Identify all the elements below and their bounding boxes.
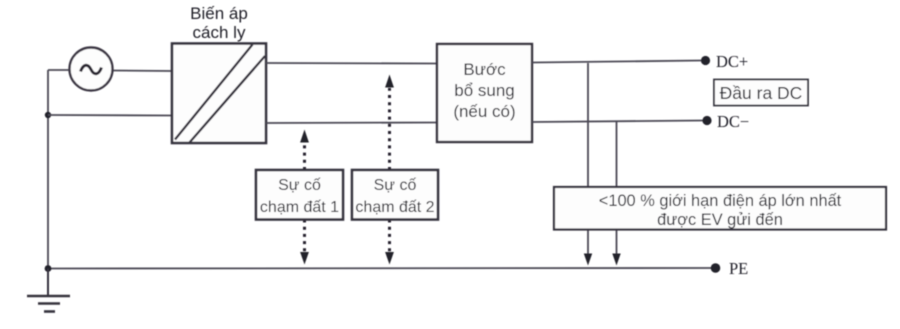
- svg-text:(nếu có): (nếu có): [453, 102, 515, 121]
- node DC- terminal dot: [702, 116, 711, 125]
- svg-text:DC+: DC+: [716, 52, 748, 71]
- wire transformer to additional-step box (bottom): [266, 122, 437, 125]
- ground fault 2 box: [352, 170, 438, 220]
- wire PE bus: [48, 267, 711, 270]
- arrowhead down at PE (tap 2): [612, 254, 620, 266]
- ground fault 2 dotted arrow (lower segment toward PE): [388, 220, 391, 253]
- ground symbol bar 2: [38, 302, 60, 305]
- svg-text:Sự cố: Sự cố: [374, 177, 417, 194]
- wire left vertical bus: [47, 70, 49, 269]
- wire DC+ output: [532, 61, 701, 63]
- additional step box U1: [437, 44, 532, 142]
- svg-text:cách ly: cách ly: [193, 23, 246, 42]
- ground symbol bar 1: [27, 295, 70, 298]
- DC output label box: [714, 80, 808, 106]
- svg-text:Sự cố: Sự cố: [278, 177, 321, 194]
- ground symbol bar 3: [44, 310, 55, 313]
- svg-text:chạm đất 1: chạm đất 1: [260, 199, 339, 216]
- svg-text:<100 % giới hạn điện áp lớn nh: <100 % giới hạn điện áp lớn nhất: [599, 192, 842, 210]
- AC sine symbol: [81, 65, 102, 74]
- transformer diagonal stripe line 1: [175, 45, 253, 140]
- ground fault 1 box: [256, 170, 343, 220]
- svg-text:chạm đất 2: chạm đất 2: [355, 199, 434, 216]
- ground fault 1 dotted arrow (lower segment toward PE): [303, 220, 306, 253]
- wire bottom from bus to transformer: [48, 114, 172, 117]
- svg-text:được EV gửi đến: được EV gửi đến: [657, 211, 783, 229]
- arrowhead down at PE (fault 2): [385, 252, 394, 265]
- ground symbol stem: [47, 269, 49, 296]
- arrowhead up (fault 1): [300, 130, 309, 143]
- ground fault 2 dotted arrow (upper segment toward DC+ wire): [388, 88, 391, 170]
- svg-text:Đầu ra DC: Đầu ra DC: [720, 83, 803, 103]
- AC source G1: [70, 48, 113, 91]
- svg-text:Bước: Bước: [463, 60, 506, 79]
- node junction dot (bus / PE): [45, 265, 52, 272]
- wire left-top from vertical bus to AC source: [48, 69, 70, 71]
- node PE terminal dot: [711, 263, 721, 273]
- svg-text:bổ sung: bổ sung: [454, 81, 515, 100]
- arrowhead down at PE (tap 1): [584, 254, 592, 266]
- wire transformer to additional-step box (top): [266, 62, 437, 65]
- transformer diagonal stripe line 2: [190, 56, 266, 143]
- svg-text:PE: PE: [729, 259, 748, 278]
- arrowhead up (fault 2): [385, 75, 394, 88]
- arrowhead down at PE (fault 1): [300, 252, 309, 265]
- svg-text:Biến áp: Biến áp: [190, 4, 248, 23]
- transformer T1 (isolation transformer box): [172, 44, 266, 144]
- wire AC source to transformer: [112, 70, 172, 73]
- wire DC- output: [532, 121, 703, 123]
- voltage limit annotation box: [554, 187, 886, 230]
- ground fault 1 dotted arrow (upper segment toward DC- wire): [303, 143, 306, 170]
- node junction dot (bus / bottom wire): [45, 112, 51, 118]
- wire monitor tap 1 (from DC+ down to PE): [587, 63, 589, 254]
- wire monitor tap 2 (from DC- down to PE): [616, 121, 618, 254]
- svg-text:DC−: DC−: [717, 112, 749, 131]
- node DC+ terminal dot: [701, 56, 710, 65]
